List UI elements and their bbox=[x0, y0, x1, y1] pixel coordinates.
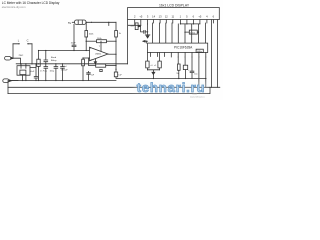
capacitor/filter 1uF on output node vertical bbox=[114, 63, 153, 78]
svg-text:100p: 100p bbox=[50, 70, 55, 72]
switch S1 L/C bbox=[13, 39, 32, 64]
svg-text:LM311: LM311 bbox=[95, 53, 102, 55]
watermark halo bbox=[134, 83, 208, 93]
resistor R8 47k vertical left of op-amp bbox=[82, 57, 85, 81]
ground (contrast) bbox=[145, 24, 150, 38]
svg-text:10uF: 10uF bbox=[30, 71, 35, 73]
svg-text:1k: 1k bbox=[119, 33, 122, 35]
resistor R5 10k1 near LCD bbox=[184, 30, 199, 34]
capacitor C1 1000pF bbox=[44, 50, 48, 81]
IC U2 PIC16F628A bbox=[148, 43, 208, 53]
svg-text:1n Poly: 1n Poly bbox=[40, 70, 48, 72]
wire ground row to PIC parts bbox=[153, 78, 205, 80]
svg-text:Reed: Reed bbox=[51, 57, 57, 59]
ground osc bbox=[147, 70, 159, 79]
svg-text:100k: 100k bbox=[89, 34, 95, 36]
wire op-amp inputs bbox=[39, 50, 90, 52]
resistor R2 1k vertical right bbox=[115, 22, 122, 72]
svg-text:4: 4 bbox=[206, 15, 208, 19]
wire PIC pins to ground bus bbox=[199, 57, 206, 87]
svg-text:12: 12 bbox=[165, 15, 168, 19]
capacitor C4 100p bbox=[61, 64, 65, 81]
resistor R6 below PIC bbox=[176, 57, 180, 79]
svg-text:1uF: 1uF bbox=[118, 74, 122, 76]
wire lower bus 1 bbox=[8, 86, 220, 88]
relay RLY1 reed relay bbox=[17, 57, 57, 81]
wire right long verticals bbox=[211, 20, 217, 88]
capacitor C3 1000pF bbox=[54, 64, 58, 81]
node RA3 arrow left of PIC bbox=[143, 40, 148, 43]
capacitor C2 10uF decoupling bbox=[71, 24, 77, 51]
svg-text:+5: +5 bbox=[198, 15, 202, 19]
svg-text:C: C bbox=[27, 39, 29, 43]
svg-text:6: 6 bbox=[193, 15, 195, 19]
connector J2 Cx bottom bbox=[3, 79, 18, 83]
value labels caps bbox=[40, 66, 68, 72]
svg-text:11: 11 bbox=[171, 15, 174, 19]
title text bbox=[2, 1, 60, 9]
PIC bottom pin stubs bbox=[151, 53, 206, 58]
wire node to reed contact bbox=[38, 51, 40, 81]
svg-text:5: 5 bbox=[186, 15, 188, 19]
reed switch contact K1 bbox=[37, 59, 40, 66]
resistor R1 100k vertical bbox=[85, 22, 94, 51]
svg-text:10u: 10u bbox=[194, 74, 197, 76]
svg-text:x1: x1 bbox=[154, 65, 156, 67]
svg-text:6: 6 bbox=[213, 15, 215, 19]
op-amp U4 LM311 bbox=[90, 46, 109, 61]
capacitor C9 10u electrolytic bbox=[188, 57, 197, 79]
LCD pin numbers bbox=[134, 15, 215, 19]
svg-text:PIC16F628A: PIC16F628A bbox=[174, 45, 193, 49]
wire +5 rail bbox=[86, 21, 116, 23]
svg-text:7: 7 bbox=[99, 46, 101, 48]
svg-text:www: www bbox=[193, 93, 198, 95]
capacitor C7 22p (osc) bbox=[146, 53, 149, 70]
svg-text:10k1: 10k1 bbox=[190, 32, 196, 34]
capacitor C6 on contrast net bbox=[144, 30, 148, 33]
svg-text:14: 14 bbox=[152, 15, 155, 19]
resistor R7 feedback below op-amp bbox=[89, 58, 117, 67]
svg-text:1: 1 bbox=[180, 15, 182, 19]
resistor R3 100k horizontal bbox=[86, 38, 116, 52]
LCD module 16x1 LCD DISPLAY bbox=[128, 4, 220, 20]
wire lower bus 2 bbox=[8, 87, 210, 93]
svg-text:Relay: Relay bbox=[51, 60, 57, 62]
svg-text:2: 2 bbox=[134, 15, 136, 19]
capacitor C8 22p (osc) bbox=[151, 53, 162, 70]
svg-text:3: 3 bbox=[147, 15, 149, 19]
5V regulator U1 bbox=[68, 20, 86, 25]
svg-text:16x1 LCD DISPLAY: 16x1 LCD DISPLAY bbox=[159, 4, 190, 8]
svg-text:13: 13 bbox=[159, 15, 162, 19]
connector J1 Lx bbox=[5, 55, 24, 64]
wire LCD data pins to PIC top pins bbox=[153, 23, 206, 43]
svg-text:L: L bbox=[18, 39, 20, 43]
small part on ground path bbox=[100, 69, 102, 71]
svg-text:4MHz: 4MHz bbox=[197, 51, 202, 53]
svg-text:x1: x1 bbox=[151, 65, 153, 67]
wire op-amp output to node bbox=[108, 53, 116, 55]
op-amp gnd pin arrow bbox=[94, 59, 96, 62]
svg-text:1000pF: 1000pF bbox=[61, 69, 69, 71]
svg-text:www.tehnari.ru: www.tehnari.ru bbox=[190, 95, 205, 98]
svg-text:2WC: 2WC bbox=[19, 55, 24, 57]
LCD pin stubs bbox=[135, 20, 214, 26]
resonator X1 4M bbox=[183, 57, 187, 79]
wire LCD pin1 row to contrast pot bbox=[128, 20, 141, 64]
svg-text:Cal: Cal bbox=[63, 66, 67, 68]
wire oscillator node row bbox=[16, 63, 127, 65]
capacitor C11 1uF near bus bbox=[87, 71, 95, 80]
svg-text:electronics-diy.com: electronics-diy.com bbox=[2, 5, 26, 9]
svg-text:5V: 5V bbox=[68, 21, 71, 25]
svg-text:+5: +5 bbox=[139, 15, 143, 19]
wire bus ground row bbox=[12, 80, 116, 82]
wire +5 tie row under LCD pins 1,5,6 bbox=[180, 23, 200, 25]
trimpot R4 10k LCD contrast bbox=[130, 23, 143, 32]
svg-text:10uF: 10uF bbox=[71, 43, 77, 45]
svg-text:1uF: 1uF bbox=[91, 74, 95, 76]
watermark tehnari.ru bbox=[137, 80, 206, 99]
capacitor C10 10uF right of relay bbox=[30, 67, 39, 81]
